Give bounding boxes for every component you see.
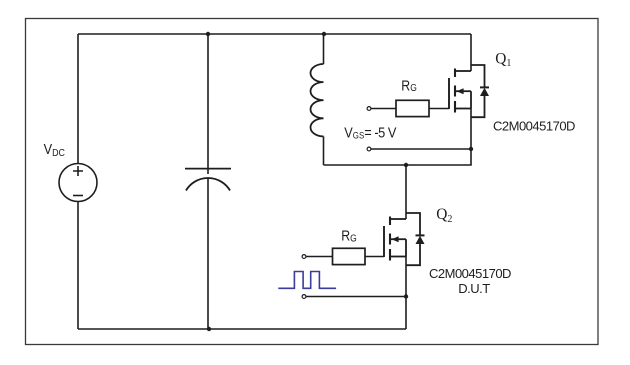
capacitor C1 [185, 34, 231, 329]
resistor RG2 [333, 248, 366, 264]
wire: terminal to RG1 [371, 108, 396, 110]
terminal: upper gate drive + [367, 107, 371, 111]
svg-text:C2M0045170D: C2M0045170D [429, 266, 511, 281]
terminal: Q2 gate drive - [302, 295, 306, 299]
node: capacitor bottom junction [207, 327, 211, 331]
node: inductor branch junction [322, 32, 326, 36]
wire: terminal to RG2 [306, 256, 333, 258]
voltage source V_DC [59, 164, 97, 202]
wire: RG1 to Q1 gate [429, 108, 449, 110]
transistor Q2 (SiC MOSFET, DUT) [384, 217, 406, 330]
wire: RG2 to Q2 gate [365, 256, 384, 258]
wire: bottom rail [78, 328, 406, 330]
svg-text:VGS= -5 V: VGS= -5 V [344, 123, 397, 141]
node: capacitor top junction [206, 32, 210, 36]
wire: terminal to Q2 source [306, 296, 406, 298]
svg-text:C2M0045170D: C2M0045170D [493, 118, 575, 133]
terminal: upper gate drive - [367, 147, 371, 151]
terminal: Q2 gate drive + [302, 255, 306, 259]
wire: top rail [78, 33, 471, 35]
inductor L1 [311, 34, 324, 165]
svg-text:D.U.T: D.U.T [458, 281, 490, 296]
resistor RG1 [396, 100, 429, 116]
wire: left column lower [77, 202, 79, 330]
body diode of Q2 [406, 213, 425, 265]
body diode of Q1 [471, 65, 489, 117]
wire: Q2 drain branch [405, 165, 407, 219]
node: Q2 source junction [404, 294, 408, 298]
node: Q1 source junction [469, 147, 473, 151]
transistor Q1 (SiC MOSFET) [449, 34, 471, 149]
node: Q2 drain branch junction [404, 163, 408, 167]
wire: left column upper [77, 34, 79, 164]
wire: upper loop bottom [324, 149, 472, 165]
pulse waveform (double pulse gate signal) [278, 272, 336, 289]
wire: terminal to Q1 source [371, 148, 471, 150]
